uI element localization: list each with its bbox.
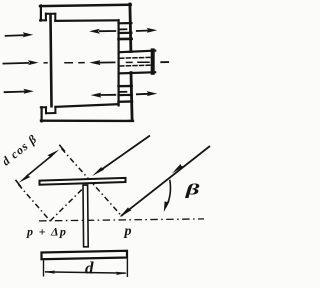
svg-text:p + Δp: p + Δp <box>26 225 67 239</box>
arrowhead upper-right <box>47 150 59 159</box>
top vent ladder rung 1 <box>119 22 132 24</box>
bottom groove right side <box>54 107 56 113</box>
extension line left <box>43 260 45 276</box>
arrowhead lower-left <box>19 174 31 183</box>
right outlet arrow top <box>136 28 157 33</box>
disc plate (edge view) <box>40 178 126 185</box>
mid-shaft arrowhead <box>172 164 184 173</box>
left flow arrow bottom <box>4 89 34 94</box>
casing bottom outer edge <box>41 119 133 122</box>
inner arrow middle (left-pointing) <box>89 60 115 65</box>
incoming flow arrow 1 (to plate centre) <box>92 136 150 177</box>
casing right outer wall upper <box>130 4 131 52</box>
bottom groove bottom <box>46 112 55 114</box>
stem bottom edge <box>119 72 155 73</box>
top groove top <box>46 13 55 15</box>
bottom bracket top side <box>41 106 46 108</box>
top groove right side <box>54 14 56 21</box>
svg-text:p: p <box>124 224 132 239</box>
d cos beta dimension line with outward arrows <box>16 145 65 187</box>
dimension shaft <box>26 155 52 176</box>
stem top edge <box>119 51 155 53</box>
top vent ladder rung 3 <box>119 32 132 34</box>
tick at lower-left tip <box>16 180 21 187</box>
inner bottom wall surface <box>55 104 118 107</box>
stem (edge view) <box>83 185 88 247</box>
top bracket underside <box>40 19 46 21</box>
extension line right <box>126 259 128 277</box>
dimension line d with outward arrowheads <box>44 271 127 276</box>
arrows <box>3 28 158 98</box>
dash-dot boundary line through plate to p <box>62 149 122 216</box>
inner top wall surface <box>55 19 118 22</box>
beta angle arc with arrowhead <box>164 180 171 212</box>
svg-text:β: β <box>185 180 201 198</box>
inner arrow top (left-pointing) <box>89 29 116 34</box>
bottom vent ladder rung 4 <box>119 100 133 103</box>
inner right wall <box>117 20 119 105</box>
dash-dot boundary line a (left, parallel to S3) <box>18 184 50 221</box>
top vent ladder rung 4 <box>119 38 132 41</box>
top vent ladder rung 2 (partial) <box>120 28 127 30</box>
inner arrow bottom (left-pointing) <box>91 93 117 98</box>
left outer vertical bottom bracket <box>40 107 42 121</box>
casing right outer wall lower <box>131 73 132 121</box>
left outer vertical top bracket <box>40 5 42 20</box>
top groove left side <box>45 14 47 21</box>
bottom groove left side <box>45 107 47 113</box>
stem bore hidden line upper <box>120 56 150 59</box>
left flow arrow top <box>5 32 34 37</box>
bottom vent ladder rung 3 <box>119 94 132 96</box>
left flow arrow middle <box>3 60 39 65</box>
tick at upper-right tip <box>59 145 64 152</box>
incoming flow arrow 2 (long, to axis) <box>120 146 211 217</box>
bottom vent ladder rung 2 (partial) <box>120 91 127 93</box>
centerline dash-dot <box>44 61 168 64</box>
membrane plate <box>51 16 52 106</box>
stem bore hidden line lower <box>120 64 150 67</box>
lower bar: disc diameter view <box>42 251 128 259</box>
casing outer top edge <box>40 5 131 6</box>
svg-text:d: d <box>85 259 94 278</box>
bottom vent ladder rung 1 <box>119 85 132 88</box>
dash-dot reflected line b <box>50 186 85 221</box>
svg-text:d cos β: d cos β <box>0 132 40 169</box>
horizontal axis dash-dot <box>39 219 204 221</box>
stem right end face <box>151 50 155 72</box>
right outlet arrow bottom <box>136 91 157 96</box>
